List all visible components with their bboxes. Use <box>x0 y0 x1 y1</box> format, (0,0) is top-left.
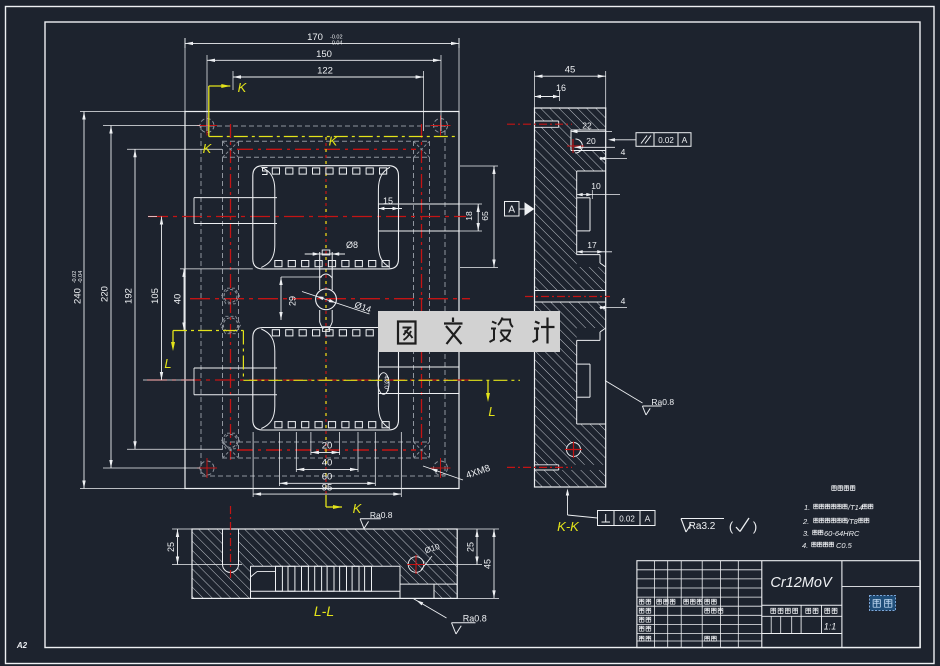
svg-text:Ra0.8: Ra0.8 <box>651 397 674 407</box>
svg-text:29: 29 <box>288 296 298 306</box>
svg-text:0.02: 0.02 <box>619 515 635 524</box>
svg-text:K: K <box>238 80 248 95</box>
svg-text:L-L: L-L <box>314 603 334 619</box>
svg-text:K: K <box>203 141 213 156</box>
svg-text:A2: A2 <box>16 641 28 650</box>
svg-text:45: 45 <box>483 559 493 569</box>
svg-text:K-K: K-K <box>557 519 580 534</box>
svg-text:45: 45 <box>565 65 576 76</box>
svg-text:3.: 3. <box>803 529 809 538</box>
svg-text:/T8: /T8 <box>846 517 859 526</box>
svg-text:4Ø.0°: 4Ø.0° <box>383 376 390 392</box>
svg-text:15: 15 <box>383 196 393 206</box>
svg-text:17: 17 <box>587 240 597 250</box>
svg-text:A: A <box>682 135 688 145</box>
svg-text:170: 170 <box>307 32 323 43</box>
svg-text:4: 4 <box>621 296 626 306</box>
svg-text:40: 40 <box>173 294 184 305</box>
svg-text:25: 25 <box>466 542 476 552</box>
svg-text:K: K <box>329 134 339 149</box>
svg-text:Ra0.8: Ra0.8 <box>370 510 393 520</box>
svg-text:Ra3.2: Ra3.2 <box>689 521 716 532</box>
svg-text:18: 18 <box>464 211 474 221</box>
svg-text:20: 20 <box>586 136 596 146</box>
svg-text:240: 240 <box>73 288 84 304</box>
svg-text:4: 4 <box>621 147 626 157</box>
svg-text:(: ( <box>729 519 734 534</box>
svg-text:L: L <box>164 356 171 371</box>
svg-text:122: 122 <box>317 66 333 77</box>
svg-text:Ra0.8: Ra0.8 <box>463 614 487 624</box>
svg-text:/T14: /T14 <box>847 503 863 512</box>
svg-text:192: 192 <box>124 288 135 304</box>
svg-text:-0.04: -0.04 <box>78 271 84 284</box>
svg-text:105: 105 <box>150 288 161 304</box>
svg-text:60-64HRC: 60-64HRC <box>824 529 860 538</box>
svg-text:10: 10 <box>591 181 601 191</box>
svg-text:-0.04: -0.04 <box>330 41 343 47</box>
svg-text:40: 40 <box>322 458 333 469</box>
svg-text:65: 65 <box>480 211 490 221</box>
svg-text:95: 95 <box>322 483 333 494</box>
svg-text:0.02: 0.02 <box>658 136 674 145</box>
svg-text:C0.5: C0.5 <box>836 541 853 550</box>
svg-text:Ø8: Ø8 <box>346 240 358 250</box>
svg-text:2.: 2. <box>802 517 809 526</box>
svg-text:K: K <box>353 501 363 516</box>
svg-text:16: 16 <box>556 83 566 93</box>
svg-text:20: 20 <box>322 441 333 452</box>
svg-text:220: 220 <box>100 286 111 302</box>
svg-text:60: 60 <box>322 472 333 483</box>
svg-text:): ) <box>753 519 757 534</box>
svg-text:1.: 1. <box>804 503 810 512</box>
svg-text:A: A <box>508 205 515 216</box>
svg-text:4.: 4. <box>802 541 808 550</box>
svg-text:1:1: 1:1 <box>824 622 837 632</box>
svg-text:Cr12MoV: Cr12MoV <box>770 575 833 591</box>
svg-text:22: 22 <box>582 121 592 131</box>
svg-text:150: 150 <box>316 49 332 60</box>
svg-text:A: A <box>645 514 651 524</box>
svg-text:L: L <box>488 404 495 419</box>
svg-text:25: 25 <box>166 542 176 552</box>
